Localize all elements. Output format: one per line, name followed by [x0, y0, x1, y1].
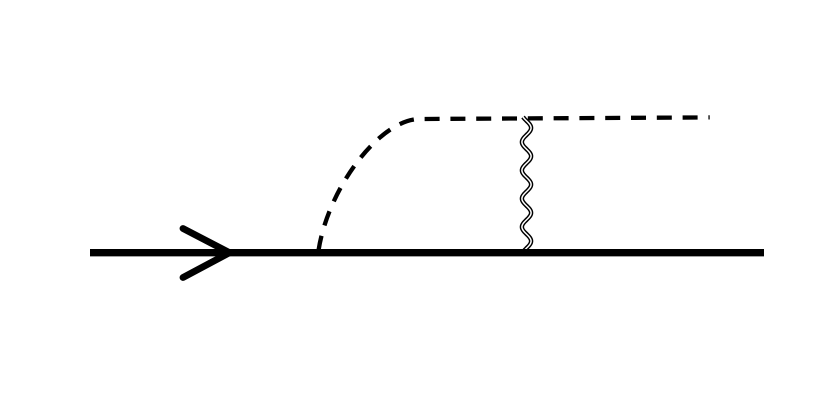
arrow on fermion line: [183, 229, 230, 278]
boson/wavy propagator (double wavy vertical): [522, 117, 531, 253]
dashed scalar line (curve + horizontal): [319, 117, 710, 250]
fermion line (solid horizontal): [90, 249, 764, 256]
